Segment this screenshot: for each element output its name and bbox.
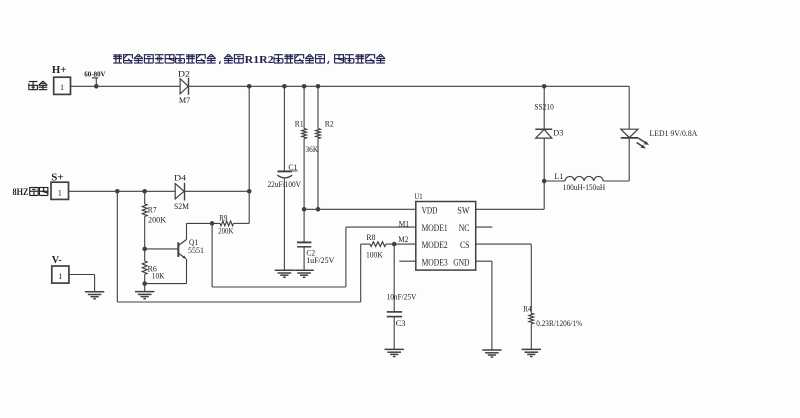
svg-text:1: 1 (58, 188, 62, 197)
label D4 (174, 173, 187, 183)
svg-text:MODE2: MODE2 (422, 240, 448, 250)
resistor R4 (529, 313, 534, 324)
label M2 (398, 234, 408, 244)
resistor R6 (142, 261, 147, 274)
wire R7 bottom (144, 216, 146, 249)
svg-text:1: 1 (58, 272, 62, 281)
label 10nF/25V (387, 291, 417, 301)
wire R9 to x249 (234, 222, 250, 224)
pin label CS (460, 240, 470, 250)
label 1uF/25V (306, 255, 335, 265)
pin label NC (459, 223, 470, 233)
svg-text:60-80V: 60-80V (84, 70, 106, 79)
svg-text:D3: D3 (553, 127, 564, 137)
label R1 (295, 119, 304, 129)
wire SW route (476, 181, 545, 209)
wire D3 top (543, 86, 545, 129)
label R2 (325, 119, 334, 129)
label U1 (414, 191, 422, 201)
port label V- (52, 255, 62, 266)
svg-text:5551: 5551 (188, 245, 204, 255)
junction top rail R2 (316, 84, 321, 89)
junction S+ x117 (115, 189, 120, 194)
junction top rail x249 (247, 84, 252, 89)
wire R7 top (144, 191, 146, 204)
wire Q1 base (145, 248, 179, 250)
svg-text:GND: GND (453, 257, 470, 267)
wire up to R8 (361, 244, 370, 302)
label 5551 (188, 245, 204, 255)
wire D4 to x249 (185, 190, 250, 192)
resistor R9 (220, 221, 234, 226)
label M7 (179, 95, 191, 105)
resistor R8 (370, 242, 386, 247)
svg-text:100K: 100K (366, 250, 383, 260)
LED LED1 (621, 129, 649, 148)
junction M1 tap (210, 221, 215, 226)
junction Q1 base node (142, 247, 147, 252)
ground (Q1/R6) (135, 292, 154, 299)
svg-text:H+: H+ (52, 65, 67, 76)
wire top rail (189, 85, 630, 87)
wire M1 route (212, 223, 416, 287)
label 36K (306, 144, 319, 154)
net label 60-80V (84, 70, 106, 87)
resistor R1 (302, 129, 307, 139)
svg-text:R9: R9 (219, 212, 228, 222)
svg-text:D2: D2 (178, 68, 190, 78)
svg-text:R7: R7 (148, 204, 157, 214)
wire collector to R9 (187, 222, 221, 224)
label SS210 (534, 101, 554, 111)
svg-text:CS: CS (460, 240, 470, 250)
svg-text:D4: D4 (174, 173, 187, 183)
svg-text:M1: M1 (399, 218, 410, 228)
svg-text:36K: 36K (306, 144, 319, 154)
wire C2 top (303, 209, 305, 242)
junction top rail D3 (542, 84, 547, 89)
inductor L1 (544, 176, 629, 181)
junction top rail R1 (302, 84, 307, 89)
wire R2 top (317, 86, 319, 128)
wire C3 top (393, 244, 395, 311)
port H+ box (54, 77, 71, 94)
diode D3 (535, 129, 552, 138)
svg-text:R2: R2 (325, 119, 334, 129)
port S+ box (51, 182, 69, 199)
svg-text:10nF/25V: 10nF/25V (387, 291, 417, 301)
wire LED bottom (628, 138, 630, 181)
wire S+ box to D4 (69, 190, 176, 192)
wire bottom rail (117, 301, 360, 303)
label M1 (399, 218, 410, 228)
svg-text:LED1 9V/0.8A: LED1 9V/0.8A (650, 128, 698, 138)
svg-text:VDD: VDD (422, 205, 438, 215)
svg-text:R8: R8 (366, 232, 376, 242)
label R7 (148, 204, 157, 214)
svg-text:M2: M2 (398, 234, 408, 244)
ground (V-) (85, 292, 104, 299)
svg-text:MODE1: MODE1 (422, 223, 448, 233)
pin label VDD (422, 205, 438, 215)
wire S+ branch down (116, 191, 118, 302)
label 半亮 (29, 81, 47, 90)
label 22uF/100V (268, 179, 302, 189)
svg-text:R4: R4 (523, 304, 532, 314)
svg-text:R1R2: R1R2 (245, 55, 274, 66)
wire R2 bottom (317, 139, 319, 210)
junction L1/D3 node (542, 179, 547, 184)
junction S+ R7 (142, 189, 147, 194)
wire R1 bottom (303, 139, 305, 210)
svg-text:U1: U1 (414, 191, 422, 201)
port V- box (52, 266, 69, 283)
label C2 (306, 247, 315, 257)
svg-text:M7: M7 (179, 95, 191, 105)
svg-text:SW: SW (457, 205, 469, 215)
diode D4 (175, 183, 184, 201)
pin label GND (453, 257, 470, 267)
resistor R7 (142, 204, 147, 217)
svg-text:200K: 200K (148, 214, 167, 224)
wire R1 top (303, 86, 305, 128)
junction D4 output (247, 189, 252, 194)
port label S+ (51, 173, 63, 184)
svg-text:SS210: SS210 (534, 101, 554, 111)
wire Q1 collector (186, 223, 188, 239)
svg-text:S2M: S2M (174, 201, 189, 211)
capacitor C3 (387, 312, 402, 317)
wire R6 top (144, 249, 146, 261)
wire R6 bottom (144, 274, 146, 291)
svg-text:0.23R/1206/1%: 0.23R/1206/1% (536, 318, 583, 328)
pin label MODE3 (422, 257, 448, 267)
svg-text:V-: V- (52, 255, 62, 266)
label C3 (396, 318, 407, 328)
wire C1 bottom (283, 179, 285, 270)
svg-text:1: 1 (60, 83, 64, 92)
junction emitter node (142, 281, 147, 286)
label R4 (523, 304, 532, 314)
wire MODE3 stub (399, 260, 416, 262)
capacitor C1 (277, 171, 292, 178)
pin label MODE1 (422, 223, 448, 233)
port label H+ (52, 65, 67, 76)
svg-text:C3: C3 (396, 318, 407, 328)
svg-text:100uH-150uH: 100uH-150uH (563, 182, 606, 192)
label 0.23R/1206/1% (536, 318, 583, 328)
label S2M (174, 201, 189, 211)
svg-text:8HZ: 8HZ (13, 187, 29, 197)
IC U1 box (416, 202, 476, 271)
resistor R2 (316, 129, 321, 139)
wire D3 bottom (543, 138, 545, 181)
label D3 (553, 127, 564, 137)
pin label SW (457, 205, 469, 215)
svg-text:10K: 10K (152, 271, 165, 281)
wire H+ box to D2 (71, 85, 181, 87)
ground (C1) (275, 270, 294, 277)
label C1 (288, 162, 298, 172)
junction top rail C1 (282, 84, 287, 89)
wire NC stub (476, 226, 493, 228)
label 100uH-150uH (563, 182, 606, 192)
wire C1 top (283, 86, 285, 171)
wire C3 bottom (393, 317, 395, 350)
label 10K (152, 271, 165, 281)
ground (U1 GND) (482, 350, 501, 357)
label 100K (366, 250, 383, 260)
svg-text:L1: L1 (554, 171, 563, 181)
label 8HZ爆闪 (13, 187, 48, 197)
wire R4 bottom (530, 324, 532, 350)
junction VDD R2 (316, 207, 321, 212)
label LED1 9V/0.8A (650, 128, 698, 138)
wire GND route (476, 261, 492, 350)
wire Q1 emitter (145, 259, 187, 284)
ground (C3) (385, 349, 404, 356)
pin label MODE2 (422, 240, 448, 250)
junction M2 node (392, 242, 397, 247)
svg-text:1uF/25V: 1uF/25V (306, 255, 335, 265)
label R6 (148, 264, 158, 274)
svg-text:R1: R1 (295, 119, 304, 129)
annotation text note (113, 54, 385, 66)
wire C2 bottom (303, 247, 305, 270)
wire LED top (628, 86, 630, 129)
label R9 (219, 212, 228, 222)
junction 60-80V probe (94, 84, 99, 89)
junction VDD R1 (302, 207, 307, 212)
capacitor C2 (297, 242, 312, 246)
ground (R4) (522, 349, 541, 356)
ground (C2) (294, 270, 313, 277)
label R8 (366, 232, 376, 242)
label 200K (R7) (148, 214, 167, 224)
svg-text:200K: 200K (218, 226, 234, 236)
wire R8 to MODE2 (386, 243, 416, 245)
transistor Q1 (178, 239, 186, 259)
wire rail x249 vertical (248, 86, 250, 223)
label 200K (R9) (218, 226, 234, 236)
diode D2 (180, 78, 188, 95)
wire V- to ground (69, 275, 95, 292)
label L1 (554, 171, 563, 181)
wire CS route (476, 244, 532, 313)
svg-text:MODE3: MODE3 (422, 257, 448, 267)
label D2 (178, 68, 190, 78)
label Q1 (189, 237, 198, 247)
wire VDD rail (304, 208, 416, 210)
svg-text:NC: NC (459, 223, 470, 233)
